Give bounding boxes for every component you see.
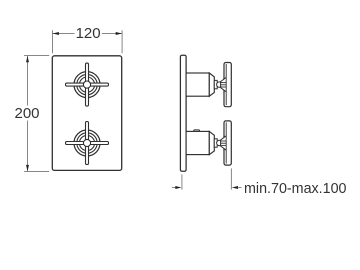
V2 stem knob: [217, 140, 222, 145]
dim 200 line bottom segment: [27, 121, 29, 172]
dim depth extension line right: [230, 168, 232, 189]
V2 body: [186, 131, 209, 154]
V1 neck: [214, 80, 217, 88]
H1 inner ring: [79, 77, 94, 92]
dim 120 arrow left: [53, 32, 59, 35]
V1 hub wedge: [221, 77, 227, 91]
V1 hub ridge lower: [220, 86, 226, 88]
V1 stem knob: [217, 82, 222, 87]
V2 hub ridge upper: [220, 140, 226, 142]
H1 horizontal arm: [66, 83, 109, 86]
dim 200 arrow top: [26, 56, 29, 62]
front plate (front view, 120x200): [52, 56, 121, 171]
dim 120 line right segment: [102, 33, 122, 35]
V2 cross handle edge-on: [224, 121, 231, 165]
V1 chamfered cap: [209, 73, 214, 96]
handle H1 (top cross handle, front view): [66, 63, 109, 106]
dim 200 extension line bottom: [24, 171, 49, 173]
dim 200 extension line top: [24, 55, 49, 57]
dim depth arrow left: [175, 186, 181, 189]
V2 stop tab: [193, 130, 200, 132]
handle H2 (bottom cross handle, front view): [66, 122, 109, 165]
V2 handle left edge patch upper: [223, 135, 225, 137]
V2 chamfered cap: [209, 131, 214, 154]
H1 vertical arm: [86, 63, 89, 106]
H2 outer ring: [74, 130, 100, 156]
V2 handle inner edge line: [225, 122, 227, 163]
H2 horizontal arm: [66, 142, 109, 145]
H2 middle ring: [77, 133, 97, 153]
V1 handle left edge patch upper: [223, 77, 225, 79]
H2 inner ring: [79, 135, 94, 150]
V1 cross handle edge-on: [224, 63, 231, 107]
V1 body: [186, 73, 209, 96]
V2 hub ridge lower: [220, 144, 226, 146]
dim 120 extension line right: [121, 30, 123, 53]
dim 200 arrow bottom: [26, 165, 29, 171]
H1 outer ring: [74, 72, 100, 98]
V2 hub ridge middle: [220, 142, 226, 144]
H2 vertical arm: [86, 122, 89, 165]
dim 200 line top segment: [27, 56, 29, 106]
svg-text:200: 200: [14, 105, 39, 122]
V2 neck: [214, 139, 217, 147]
dim depth arrow right: [232, 186, 238, 189]
dim 120 line left segment: [53, 33, 75, 35]
H2 center cap: [83, 139, 90, 146]
V1 hub ridge upper: [220, 82, 226, 84]
wall plate (side view): [180, 55, 186, 171]
dim 120 extension line left: [52, 30, 54, 53]
dim 120 arrow right: [116, 32, 122, 35]
V2 hub wedge: [221, 136, 227, 150]
valve V2 (bottom valve, side view): [186, 121, 231, 165]
svg-text:min.70-max.100: min.70-max.100: [244, 181, 347, 197]
valve V1 (top valve, side view): [186, 63, 231, 107]
H1 middle ring: [77, 74, 97, 94]
V2 handle left edge patch lower: [223, 148, 225, 150]
V1 hub ridge middle: [220, 84, 226, 86]
H1 center cap: [83, 81, 90, 88]
V1 handle inner edge line: [225, 64, 227, 105]
V1 handle left edge patch lower: [223, 90, 225, 92]
dim depth extension line left: [181, 174, 183, 189]
svg-text:120: 120: [76, 25, 101, 42]
dim depth right tail: [238, 187, 242, 189]
dim depth left tail: [172, 187, 176, 189]
